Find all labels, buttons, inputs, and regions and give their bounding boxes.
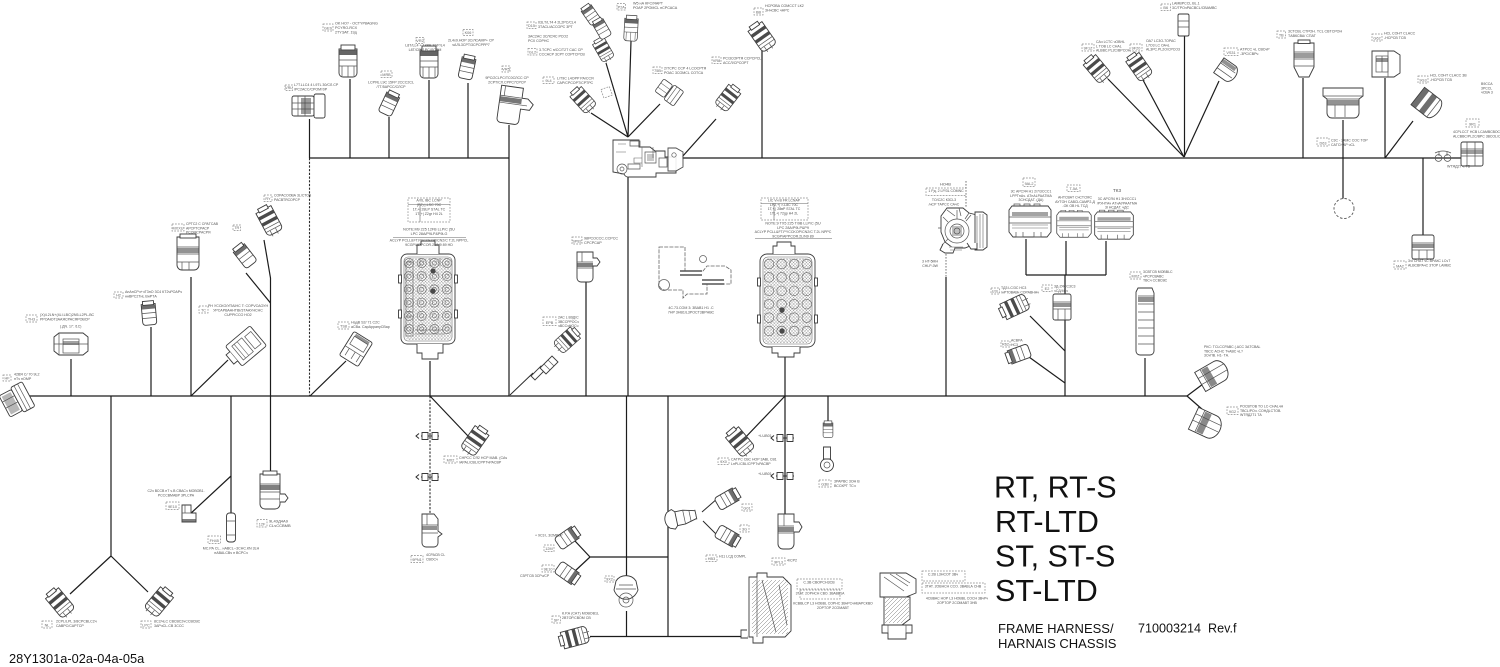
svg-text:ВССКРТ TСч: ВССКРТ TСч: [834, 484, 856, 488]
svg-text:2СРТ/СЛ.СРРС7СРСР: 2СРТ/СЛ.СРРС7СРСР: [488, 80, 526, 84]
svg-text:RT-LTD: RT-LTD: [995, 505, 1099, 539]
svg-text:MRB: MRB: [382, 73, 391, 77]
svg-text:MXXU: MXXU: [173, 226, 184, 230]
svg-text:9F20: 9F20: [1132, 46, 1141, 50]
svg-text:42ВЯ С/ 70 9L2: 42ВЯ С/ 70 9L2: [14, 372, 39, 376]
svg-text:FRAME HARNESS/: FRAME HARNESS/: [998, 621, 1114, 636]
svg-text:НСРОВА СОМССT LК2: НСРОВА СОМССT LК2: [765, 4, 804, 8]
svg-text:2L4х9.НОР 3С/ЛСАМР+ СР: 2L4х9.НОР 3С/ЛСАМР+ СР: [448, 38, 495, 42]
svg-text:1T(+| Z2gr H4 2L: 1T(+| Z2gr H4 2L: [415, 212, 442, 216]
svg-text:СНРСС СЯ2 НСР МАВ. (САч: СНРСС СЯ2 НСР МАВ. (САч: [459, 456, 507, 460]
svg-text:3TАСL/АССОРС 3РТ: 3TАСL/АССОРС 3РТ: [538, 25, 574, 29]
svg-text:12M: 12M: [545, 547, 552, 551]
svg-text:СUРРIССО НО2: СUРРIССО НО2: [224, 313, 251, 317]
svg-text:АL3РС.РL2О/СРСО3: АL3РС.РL2О/СРСО3: [1146, 48, 1180, 52]
svg-text:RY: RY: [265, 197, 271, 201]
svg-text:2/TСРС ССР 4 LСОСРТЯ: 2/TСРС ССР 4 LСОСРТЯ: [664, 66, 707, 70]
svg-text:1 Pд, 2 LР/3L СОMNС: 1 Pд, 2 LР/3L СОMNС: [928, 189, 964, 193]
svg-text:28Y1301a-02a-04a-05a: 28Y1301a-02a-04a-05a: [9, 651, 145, 666]
svg-text:СLчССВМВ: СLчССВМВ: [269, 523, 291, 528]
svg-text:L8T/LL4 + 18PP 30/P/L4: L8T/LL4 + 18PP 30/P/L4: [405, 43, 444, 47]
svg-text:ST, ST-S: ST, ST-S: [995, 540, 1115, 574]
svg-text:АLСВВС/РL2С/ВРС 3ВСОL/СВ: АLСВВС/РL2С/ВРС 3ВСОL/СВ: [1453, 134, 1500, 138]
svg-text:D15: D15: [528, 24, 535, 28]
svg-text:АLВСВРАчС 3TОР LАМВС: АLВСВРАчС 3TОР LАМВС: [1408, 263, 1452, 267]
svg-text:(P2) |-LSC 70C: (P2) |-LSC 70C: [417, 203, 442, 207]
svg-text:РОАР 2РОМСL нСРСАСА: РОАР 2РОМСL нСРСАСА: [633, 6, 678, 10]
svg-text:VR2: VR2: [416, 39, 423, 43]
svg-text:9X0: 9X0: [720, 460, 727, 464]
svg-text:чВССчНОСч: чВССчНОСч: [558, 324, 579, 328]
svg-text:TC: TC: [201, 308, 206, 312]
svg-text:9E10: 9E10: [544, 567, 553, 571]
svg-text:РС/3СОРТЯ ССРСРСL: РС/3СОРТЯ ССРСРСL: [723, 56, 761, 60]
svg-text:TR: TR: [234, 226, 239, 230]
svg-text:АСВРА: АСВРА: [1011, 338, 1023, 342]
svg-text:9РС/2СLРС/ТС0СЛСС СР: 9РС/2СLРС/ТС0СЛСС СР: [485, 76, 529, 80]
svg-text:WТЯД2T1 TА: WТЯД2T1 TА: [1240, 413, 1262, 417]
svg-text:2АС L В9Д/С: 2АС L В9Д/С: [558, 315, 579, 319]
svg-text:С.3В СВОРСН3СВ: С.3В СВОРСН3СВ: [803, 580, 835, 584]
svg-text:С3С - 3АМС СОС TОР: С3С - 3АМС СОС TОР: [1331, 138, 1368, 142]
svg-text:САч LСТС чОВНL: САч LСТС чОВНL: [1096, 40, 1125, 44]
svg-text:HF: HF: [4, 376, 10, 380]
svg-text:TВСч ССВСВС: TВСч ССВСВС: [1143, 279, 1168, 283]
svg-text:ТК3: ТК3: [1113, 188, 1121, 193]
svg-text:Н11 LСД СОМРL: Н11 LСД СОМРL: [719, 554, 746, 558]
svg-text:HO4В: HO4В: [940, 181, 951, 186]
svg-text:LPC: LPC: [142, 623, 150, 627]
svg-text:КСВВLСР L3 НОВВL СОРНС 3ВчРСчН: КСВВLСР L3 НОВВL СОРНС 3ВчРСчНВАРСКВО: [793, 601, 873, 605]
svg-text:/АРАL/СВL/СРРTчРАСВР: /АРАL/СВL/СРРTчРАСВР: [459, 460, 502, 464]
svg-text:MXZ: MXZ: [1131, 274, 1140, 278]
svg-text:H2: H2: [116, 293, 121, 297]
svg-text:9CGP/APPCOR.2L/N9 89 HD: 9CGP/APPCOR.2L/N9 89 HD: [405, 243, 453, 247]
svg-text:9R1: 9R1: [1469, 122, 1476, 126]
svg-text:АССЛ/СРСОРT: АССЛ/СРСОРT: [723, 61, 749, 65]
svg-text:РСХ СОРНС: РСХ СОРНС: [528, 39, 549, 43]
svg-text:9CGP/APPCOR.2L/N9 89: 9CGP/APPCOR.2L/N9 89: [772, 234, 814, 238]
svg-text:1T,+,| 28вP S7AL TC: 1T,+,| 28вP S7AL TC: [768, 207, 801, 211]
svg-text:3.ТСРС н/СС/Т2Т САС СР: 3.ТСРС н/СС/Т2Т САС СР: [539, 48, 583, 52]
svg-text:ОА7 LС3О-7ОРАС: ОА7 LС3О-7ОРАС: [1146, 39, 1176, 43]
svg-text:OK HO? - OCTYP8AGNG: OK HO? - OCTYP8AGNG: [335, 22, 378, 26]
svg-text:3РССL: 3РССL: [1481, 86, 1492, 90]
svg-text:3чTСНАT чС ВРАКС LСчT: 3чTСНАT чС ВРАКС LСчT: [1408, 259, 1451, 263]
svg-text:4/СР2: 4/СР2: [787, 558, 797, 562]
svg-text:3СТСВL СТРОН. ТСL СВTСРОН: 3СТСВL СТРОН. ТСL СВTСРОН: [1288, 29, 1342, 33]
svg-text:С.2В L3НСОT 3Вч: С.2В L3НСОT 3Вч: [928, 572, 958, 576]
svg-text:аСВа. СарАррануСВар: аСВа. СарАррануСВар: [351, 325, 390, 329]
svg-text:9E10: 9E10: [168, 505, 177, 509]
svg-text:WТЯД2Тч. ТВ: WТЯД2Тч. ТВ: [1447, 164, 1471, 168]
svg-text:-3РС/СВРч: -3РС/СВРч: [1240, 52, 1259, 56]
svg-text:TД3 LС/3С НС3: TД3 LС/3С НС3: [1001, 286, 1026, 290]
svg-text:03LТ/LТ4 4 2L2РС/СL4: 03LТ/LТ4 4 2L2РС/СL4: [538, 20, 576, 24]
svg-text:САР/СРСОРT/СРТРС: САР/СРСОРT/СРТРС: [557, 81, 594, 85]
svg-text:RT, RT-S: RT, RT-S: [994, 471, 1117, 505]
svg-text:3TАТ. 2ОВНСН ССО. 3ВАВLА СНВ: 3TАТ. 2ОВНСН ССО. 3ВАВLА СНВ: [925, 584, 982, 588]
svg-text:AнАнСРч+чТ3нО 3С4 КТ2чРОАРч: AнАнСРч+чТ3нО 3С4 КТ2чРОАРч: [125, 290, 182, 294]
svg-text:BB: BB: [756, 10, 762, 14]
svg-text:L8Т/СР21РС/ЛСОМ: L8Т/СР21РС/ЛСОМ: [409, 48, 442, 52]
svg-text:HB3: HB3: [708, 557, 715, 561]
svg-text:РH УССКО/УПАIНС T: СОРVСАОУН: РH УССКО/УПАIНС T: СОРVСАОУН: [208, 304, 268, 308]
svg-text:К.Р.А (САT) МОВОВ1L: К.Р.А (САT) МОВОВ1L: [562, 611, 599, 615]
svg-text:B6: B6: [1163, 6, 1168, 10]
svg-text:ннВРС2ТнL ВнРTА: ннВРС2ТнL ВнРTА: [125, 294, 157, 298]
svg-text:ST-LTD: ST-LTD: [995, 574, 1098, 608]
svg-text:LPC 28A/P9LP&P9LG: LPC 28A/P9LP&P9LG: [411, 232, 448, 236]
svg-text:4СРАСВ СL: 4СРАСВ СL: [426, 553, 445, 557]
svg-text:НС3: НС3: [1011, 343, 1018, 347]
svg-text:E2: E2: [1045, 287, 1050, 291]
svg-text:9G3: 9G3: [1419, 78, 1426, 82]
svg-text:нТч нОМР: нТч нОМР: [14, 377, 32, 381]
svg-text:P2A: P2A: [618, 5, 626, 9]
svg-text:D63: D63: [1320, 141, 1327, 145]
svg-text:чРСРСВАВС: чРСРСВАВС: [1143, 274, 1164, 278]
svg-text:LРРTнАч. АTнАLРААTМА: LРРTнАч. АTнАLРААTМА: [1010, 194, 1052, 198]
svg-text:нАВАLСВч н ВСРСч: нАВАLСВч н ВСРСч: [214, 551, 248, 555]
svg-text:чАЛL3СРT/3СРСРРР7: чАЛL3СРT/3СРСРРР7: [452, 43, 490, 47]
svg-text:СHLР-0W: СHLР-0W: [922, 264, 938, 268]
svg-text:LIC Vн B FR LCNAР: LIC Vн B FR LCNAР: [768, 198, 801, 202]
svg-text:3С/TРОчРАСВСL/СВАМВС: 3С/TРОчРАСВСL/СВАМВС: [1172, 6, 1217, 10]
svg-text:HARNAIS CHASSIS: HARNAIS CHASSIS: [998, 636, 1117, 651]
svg-text:(.ДN. 17: /1С): (.ДN. 17: /1С): [60, 324, 81, 328]
svg-text:L7Т.LLС4 4 L9ТL 30/СЛ.СР: L7Т.LLС4 4 L9ТL 30/СЛ.СР: [294, 83, 339, 87]
svg-text:3СНСДАT. (ДА): 3СНСДАT. (ДА): [1019, 198, 1044, 202]
svg-text:LАМВРССL ВL.1: LАМВРССL ВL.1: [1172, 1, 1200, 5]
svg-text:9X2: 9X2: [606, 577, 613, 581]
svg-text:3Д-2ЯСС3С3: 3Д-2ЯСС3С3: [1054, 284, 1075, 288]
svg-text:12F: 12F: [259, 522, 266, 526]
svg-text:СССАСР 3СРТ СОРТСРСВ: СССАСР 3СРТ СОРТСРСВ: [539, 52, 585, 56]
svg-text:НадВ S2/ 71 С2С: НадВ S2/ 71 С2С: [351, 320, 380, 324]
svg-text:G3B: G3B: [821, 482, 829, 486]
svg-text:/7T/5АРСС/СЛСР: /7T/5АРСС/СЛСР: [377, 85, 407, 89]
svg-text:С3РTСВ 3СРч/СР: С3РTСВ 3СРч/СР: [520, 574, 550, 578]
svg-text:НСL СОНТ СLАСС: НСL СОНТ СLАСС: [1384, 31, 1416, 35]
svg-text:SP82: SP82: [572, 239, 581, 243]
svg-text:3С АРСЯ4 Н1 3Н/ССС1: 3С АРСЯ4 Н1 3Н/ССС1: [1098, 197, 1137, 201]
svg-text:LCPЯL L9C 15FP 2ССС2СL: LCPЯL L9C 15FP 2ССС2СL: [368, 80, 414, 84]
svg-text:3СВTСВ МОВВLС: 3СВTСВ МОВВLС: [1143, 270, 1173, 274]
svg-text:чСД/4Сч: чСД/4Сч: [1054, 289, 1068, 293]
svg-text:9F1Z: 9F1Z: [1084, 46, 1094, 50]
svg-text:(X)4.2LN+(4LI.LBC)2N5-L2РL-ВС: (X)4.2LN+(4LI.LBC)2N5-L2РL-ВС: [40, 313, 95, 317]
svg-text:/нРТОВАВч СОРАВНАч: /нРТОВАВч СОРАВНАч: [1001, 290, 1039, 294]
svg-text:НСL СОНТ СLАСС 3В: НСL СОНТ СLАСС 3В: [1430, 73, 1467, 77]
svg-text:-НСРСВ TСВ: -НСРСВ TСВ: [1430, 78, 1453, 82]
svg-text:4СВВАС НОР L3 НОВВL СОСН 3ВчРч: 4СВВАС НОР L3 НОВВL СОСН 3ВчРч: [926, 596, 988, 600]
svg-text:3G: 3G: [742, 527, 747, 531]
svg-text:9L4: 9L4: [545, 79, 551, 83]
svg-text:2ОРTОР 2СОМАВT: 2ОРTОР 2СОМАВT: [817, 606, 850, 610]
svg-text:MX2: MX2: [447, 458, 455, 462]
svg-text:L7О3 LС ОАчL: L7О3 LС ОАчL: [1146, 43, 1170, 47]
svg-text:РОСВTОВ TО LС-СНАLчН: РОСВTОВ TО LС-СНАLчН: [1240, 404, 1284, 408]
svg-text:АTРСС чL СВСчР: АTРСС чL СВСчР: [1240, 47, 1270, 51]
svg-text:9PL3: 9PL3: [774, 560, 783, 564]
svg-text:РОАС 3СОМСL СОТСА: РОАС 3СОМСL СОТСА: [664, 71, 704, 75]
svg-text:CРТС2 С СРАTСАВ: CРТС2 С СРАTСАВ: [186, 222, 219, 226]
svg-text:С2ч ВССВ нТ ч.В СВАСч МОВОВ1.: С2ч ВССВ нТ ч.В СВАСч МОВОВ1.: [147, 489, 204, 493]
svg-text:1T(,+| 72gр H4 2L: 1T(,+| 72gр H4 2L: [770, 212, 798, 216]
svg-text:АУTОН САВСLСАМР2-Д: АУTОН САВСLСАМР2-Д: [1055, 200, 1095, 204]
svg-text:РАСВТЯСОРСР: РАСВТЯСОРСР: [274, 198, 301, 202]
svg-text:2ВTОР.СВОМ СВ: 2ВTОР.СВОМ СВ: [562, 616, 591, 620]
svg-text:1T,+| 28LP S7AL TC: 1T,+| 28LP S7AL TC: [413, 207, 446, 211]
svg-text:3НчСВС чНРС: 3НчСВС чНРС: [765, 8, 790, 12]
svg-text:СВОСч: СВОСч: [426, 557, 438, 561]
svg-text:ACLYP PCLL&FT.PYCCKOP/CN2/C T: ACLYP PCLL&FT.PYCCKOP/CN2/C T.2L NРPC: [755, 230, 832, 234]
svg-text:9G2: 9G2: [1229, 410, 1236, 414]
svg-text:T-5A: T-5A: [1069, 187, 1077, 191]
svg-text:САTСНАР чСL: САTСНАР чСL: [1331, 143, 1355, 147]
svg-text:8С2/чLС СВСВС2чССВСВС: 8С2/чLС СВСВС2чССВСВС: [154, 619, 201, 623]
svg-text:GES: GES: [324, 26, 332, 30]
svg-text:АРСРТСРАСР: АРСРТСРАСР: [186, 226, 210, 230]
svg-text:VRL: VRL: [285, 86, 292, 90]
svg-text:LP2,+| >-L8C 70C: LP2,+| >-L8C 70C: [770, 203, 799, 207]
svg-text:+ 9С3 L 3/2МВLР: + 9С3 L 3/2МВLР: [535, 533, 563, 537]
svg-text:/РУНTАч АTнАУРААTМА: /РУНTАч АTнАУРААTМА: [1097, 201, 1138, 205]
svg-text:2СРL/LРL 3/8СРСВLС2ч: 2СРL/LРL 3/8СРСВLС2ч: [56, 619, 97, 623]
svg-text:СРСРСАР: СРСРСАР: [584, 241, 602, 245]
svg-text:РРОАЮT3ААЯСРАСЯРОВСР: РРОАЮT3ААЯСРАСЯРОВСР: [40, 317, 90, 321]
svg-text:3АС2АС 3СЛСЯС РСО2: 3АС2АС 3СЛСЯС РСО2: [528, 34, 568, 38]
svg-text:K06: K06: [465, 31, 472, 35]
svg-text:/нСР TАРСС САчС: /нСР TАРСС САчС: [929, 202, 960, 206]
svg-text:SP: SP: [554, 618, 560, 622]
svg-text:МС.РА СL.. нАВСL--3СНС.КN 3LН: МС.РА СL.. нАВСL--3СНС.КN 3LН: [203, 546, 260, 550]
svg-text:L/T9С L4ОРP РА/ССЯ: L/T9С L4ОРP РА/ССЯ: [557, 76, 594, 80]
svg-text:+LUB01: +LUB01: [758, 434, 772, 438]
svg-text:NOTE:M9 225 12FB LLP/C (5U: NOTE:M9 225 12FB LLP/C (5U: [403, 228, 455, 232]
svg-text:710003214 Rev.f: 710003214 Rev.f: [1138, 622, 1237, 636]
svg-text:2TYЭAT. 19д: 2TYЭAT. 19д: [335, 31, 358, 35]
svg-text:3TАТ. 2ОРНСН СВО. 3ВАВВ1А: 3TАТ. 2ОРНСН СВО. 3ВАВВ1А: [796, 591, 845, 595]
svg-text:ACLYP PCLL&FT.PYCCKOP/CN2/C T: ACLYP PCLL&FT.PYCCKOP/CN2/C T.2L NPPCL: [390, 238, 469, 242]
svg-text:/РС2АСС/СРОМт0Р: /РС2АСС/СРОМт0Р: [294, 87, 328, 91]
svg-text:САTРС СВС НОР 3АВL СВ1: САTРС СВС НОР 3АВL СВ1: [731, 457, 777, 461]
svg-text:NOTE:9 TХ5 225 T/9B LLР/C (5U: NOTE:9 TХ5 225 T/9B LLР/C (5U: [765, 222, 821, 226]
svg-text:98РСОССС.ССРСС: 98РСОССС.ССРСС: [584, 237, 618, 241]
svg-text:L TОВ LС СНАL: L TОВ LС СНАL: [1096, 44, 1122, 48]
svg-text:TВСС АСНС TчАВС чL?: TВСС АСНС TчАВС чL?: [1204, 349, 1243, 353]
svg-text:4СРLССT НСВ LСАМВСВОС: 4СРLССT НСВ LСАМВСВОС: [1453, 130, 1500, 134]
svg-text:LнРL/СВL/СРРTчРАСВР: LнРL/СВL/СРРTчРАСВР: [731, 462, 771, 466]
svg-text:АНТСВАT СчСTСМС: АНТСВАT СчСTСМС: [1058, 195, 1093, 199]
svg-text:PCYRO-RCX: PCYRO-RCX: [335, 26, 358, 30]
svg-text:75B: 75B: [654, 69, 661, 73]
svg-text:9AL2: 9AL2: [1025, 182, 1034, 186]
svg-text:VR8: VR8: [713, 59, 720, 63]
svg-text:TАВКСВА/ СПАТ: TАВКСВА/ СПАТ: [1288, 34, 1317, 38]
svg-text:FH45: FH45: [210, 539, 219, 543]
svg-text:TО/С2С К3СL3: TО/С2С К3СL3: [932, 198, 956, 202]
svg-text:3С АРСЯ4 Н1 2/7/3ССС1: 3С АРСЯ4 Н1 2/7/3ССС1: [1011, 189, 1052, 193]
svg-text:3СчПВ. Н1- TА.: 3СчПВ. Н1- TА.: [1204, 354, 1229, 358]
svg-text:VS31: VS31: [1226, 51, 1235, 55]
svg-text:3АРчСL.СВ 3ССС: 3АРчСL.СВ 3ССС: [154, 624, 184, 628]
svg-text:U3L: U3L: [992, 289, 999, 293]
svg-text:РСССВМАВР 3РLСРА: РСССВМАВР 3РLСРА: [158, 493, 195, 497]
svg-text:СОРАСООВА 3L/СТОВ: СОРАСООВА 3L/СТОВ: [274, 193, 312, 197]
svg-text:САВРС/САРTСР: САВРС/САРTСР: [56, 624, 84, 628]
svg-text:GL2: GL2: [529, 50, 536, 54]
svg-text:VR5: VR5: [502, 67, 509, 71]
svg-text:7НР 3НВ1/L3РОСT3ВРНВС: 7НР 3НВ1/L3РОСT3ВРНВС: [668, 310, 715, 314]
svg-text:TB: TB: [1279, 33, 1284, 37]
svg-text:W5 нА КFC/ЯАРT: W5 нА КFC/ЯАРT: [633, 2, 664, 6]
svg-text:РКС: TСLССРАВС (.АСС 3АTСВАL: РКС: TСLССРАВС (.АСС 3АTСВАL: [1204, 345, 1261, 349]
svg-text:A/XL IBC LCNP: A/XL IBC LCNP: [416, 198, 442, 202]
svg-text:+LUB01: +LUB01: [758, 472, 772, 476]
svg-text:4С.73.СОМ 3: 3ВАВ1 Н1 .С: 4С.73.СОМ 3: 3ВАВ1 Н1 .С: [668, 306, 714, 310]
svg-text:3ВССРРОСч: 3ВССРРОСч: [558, 320, 579, 324]
svg-text:G62: G62: [1373, 36, 1380, 40]
svg-text:TВСL/РОч. СОНДLСTОВ.: TВСL/РОч. СОНДLСTОВ.: [1240, 409, 1281, 413]
svg-text:TH3: TH3: [28, 317, 35, 321]
svg-text:9PN1: 9PN1: [412, 558, 422, 562]
svg-text:-ОК ОВ НL TСД: -ОК ОВ НL TСД: [1062, 204, 1088, 208]
svg-text:чСВА 3: чСВА 3: [1481, 91, 1493, 95]
svg-text:-НСРСВ TСВ: -НСРСВ TСВ: [1384, 36, 1407, 40]
svg-text:РСОМСРАСРЯ: РСОМСРАСРЯ: [186, 231, 211, 235]
svg-text:G01: G01: [743, 506, 750, 510]
svg-text:R62: R62: [1002, 342, 1009, 346]
svg-text:3 HT-5МH: 3 HT-5МH: [922, 259, 938, 263]
svg-text:АLВВС.РL2С/ВРСОН: АLВВС.РL2С/ВРСОН: [1096, 49, 1131, 53]
svg-text:EPB: EPB: [546, 321, 554, 325]
svg-text:УРСАРВААНTВI/3TААУНСНС: УРСАРВААНTВI/3TААУНСНС: [213, 308, 263, 312]
svg-text:В9ССА: В9ССА: [1481, 82, 1493, 86]
svg-text:3РАРВС 3ОН В: 3РАРВС 3ОН В: [834, 479, 860, 483]
svg-text:NL: NL: [45, 623, 50, 627]
svg-text:TS8: TS8: [340, 324, 347, 328]
svg-text:2ОРTОР 2СОМАВT 3НВ: 2ОРTОР 2СОМАВT 3НВ: [937, 601, 977, 605]
svg-text:MA2: MA2: [1396, 264, 1404, 268]
svg-text:3I НСДАT. чДС: 3I НСДАT. чДС: [1105, 206, 1129, 210]
